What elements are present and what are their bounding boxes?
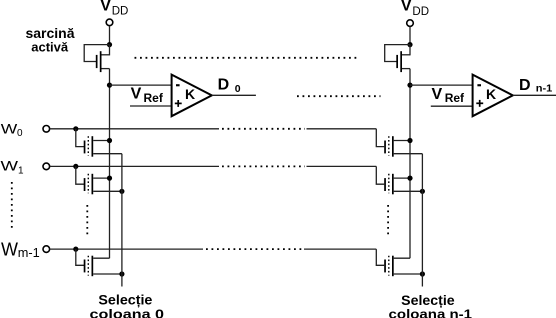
junction bit line to comparator input column n-1 <box>407 83 412 88</box>
svg-text:Ref: Ref <box>445 91 465 105</box>
svg-text:W: W <box>1 120 18 136</box>
wire word line Wm-1 <box>50 249 385 265</box>
text W1 <box>1 158 25 177</box>
wire comparator minus input column n-1 <box>410 84 473 86</box>
junction cell W1 source on select line column 0 <box>119 189 124 194</box>
junction cell W1 source on select line column n-1 <box>420 189 425 194</box>
svg-text:coloana 0: coloana 0 <box>90 307 165 318</box>
dotted ellipsis more cells column n-1 <box>387 205 389 236</box>
wire column select line column 0 <box>121 154 123 287</box>
terminal W0 <box>43 126 50 133</box>
junction W0 gate tap column 0 <box>73 126 78 131</box>
junction load gate-drain column 0 <box>107 42 112 47</box>
svg-text:K: K <box>486 86 496 102</box>
svg-text:DD: DD <box>112 5 129 17</box>
dotted bus continuation comparator row <box>297 95 381 97</box>
text Dn-1 <box>519 77 552 95</box>
transistor cell W1 column 0 <box>84 174 122 195</box>
svg-text:Selecție: Selecție <box>98 292 152 308</box>
terminal Wm-1 <box>43 246 50 253</box>
junction cell Wm-1 source on select line column 0 <box>119 271 124 276</box>
wire gate cell W0 column 0 <box>76 129 84 147</box>
dotted ellipsis more word lines (left) <box>11 182 13 229</box>
svg-text:V: V <box>131 86 142 103</box>
dotted ellipsis more cells column 0 <box>86 205 88 237</box>
text sarcina activa <box>25 25 74 55</box>
terminal W1 <box>43 163 50 170</box>
wire gate cell Wm-1 column 0 <box>76 249 84 265</box>
svg-text:m-1: m-1 <box>18 245 40 260</box>
svg-text:D: D <box>218 77 230 94</box>
transistor cell Wm-1 column 0 <box>84 256 122 277</box>
wire load gate loop column n-1 <box>385 45 410 62</box>
transistor cell W1 column n-1 <box>384 174 422 195</box>
wire comparator minus input column 0 <box>110 84 172 86</box>
wire VRef plus input column 0 <box>130 105 172 107</box>
svg-text:D: D <box>519 77 531 94</box>
text Selectie coloana 0 <box>90 292 165 318</box>
wire bit line column n-1 <box>409 69 411 259</box>
text Wm-1 <box>1 240 40 260</box>
svg-text:W: W <box>1 158 20 174</box>
wire gate cell W1 column 0 <box>76 166 84 184</box>
svg-text:W: W <box>1 240 18 260</box>
wire comparator output Dn-1 <box>513 94 556 96</box>
svg-text:Ref: Ref <box>144 91 164 105</box>
wire VDD terminal to load drain <box>109 26 111 45</box>
wire bit line column 0 <box>109 69 111 259</box>
wire word line W0 <box>50 129 385 147</box>
terminal VDD column n-1 <box>407 20 414 27</box>
junction bit line to comparator input column 0 <box>107 83 112 88</box>
transistor cell W0 column n-1 <box>384 136 422 157</box>
junction W1 gate tap column 0 <box>73 164 78 169</box>
transistor cell W0 column 0 <box>84 136 122 157</box>
text Selectie coloana n-1 <box>389 292 473 318</box>
text D0 <box>218 77 241 96</box>
svg-text:V: V <box>401 0 412 14</box>
comparator U0 gain K column 0 <box>172 75 212 117</box>
dotted bus continuation load row <box>135 57 360 59</box>
net VDD column 0 label <box>100 0 128 17</box>
wire VDD terminal to load drain column n-1 <box>409 27 411 45</box>
junction cell W1 drain on bit line column 0 <box>107 176 112 181</box>
svg-text:V: V <box>100 0 111 15</box>
svg-text:coloana n-1: coloana n-1 <box>389 307 473 318</box>
comparator Un-1 gain K column n-1 <box>473 75 513 117</box>
svg-text:K: K <box>185 86 195 102</box>
net VDD column n-1 label <box>401 0 429 18</box>
terminal VDD column 0 <box>106 19 113 26</box>
transistor cell Wm-1 column n-1 <box>384 256 422 277</box>
wire load gate loop column 0 <box>84 45 109 62</box>
svg-text:activă: activă <box>31 39 69 54</box>
text VRef column 0 <box>131 86 164 105</box>
junction Wm-1 gate tap column 0 <box>73 247 78 252</box>
junction cell W0 drain on bit line column 0 <box>107 138 112 143</box>
svg-text:0: 0 <box>235 83 241 95</box>
junction load gate-drain column n-1 <box>407 42 412 47</box>
svg-text:DD: DD <box>412 6 429 18</box>
svg-text:1: 1 <box>18 166 24 177</box>
svg-text:V: V <box>432 86 443 103</box>
text VRef column n-1 <box>432 86 466 105</box>
wire word line W1 <box>50 166 385 184</box>
wire VRef plus input column n-1 <box>431 105 473 107</box>
text W0 <box>1 120 23 139</box>
transistor load Q_L0 (sarcina activa) column 0 <box>96 45 110 73</box>
wire column select line column n-1 <box>421 154 423 287</box>
transistor load Q_Ln (sarcina activa) column n-1 <box>396 45 410 73</box>
wire comparator output D0 <box>212 94 256 96</box>
junction cell Wm-1 source on select line column n-1 <box>420 271 425 276</box>
svg-text:0: 0 <box>17 128 23 139</box>
svg-text:n-1: n-1 <box>536 83 553 95</box>
junction cell W1 drain on bit line column n-1 <box>407 176 412 181</box>
junction cell W0 drain on bit line column n-1 <box>407 138 412 143</box>
